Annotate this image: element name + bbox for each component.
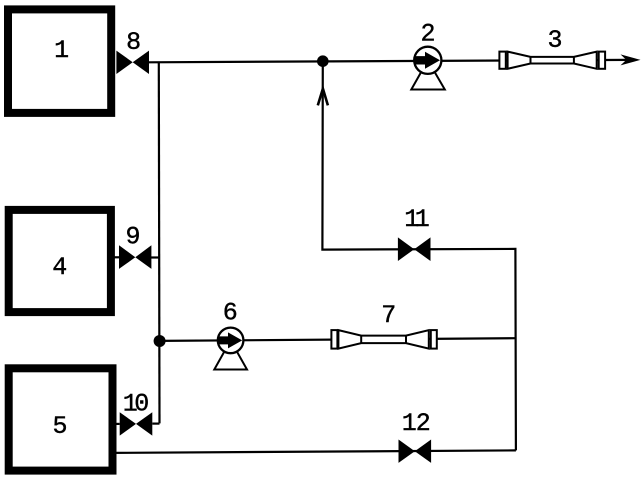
svg-text:3: 3 (547, 26, 562, 55)
svg-text:1: 1 (54, 36, 69, 65)
svg-text:1: 1 (402, 409, 417, 438)
svg-text:8: 8 (126, 28, 141, 57)
svg-text:2: 2 (416, 409, 431, 438)
svg-text:6: 6 (223, 298, 238, 327)
svg-text:1: 1 (415, 205, 430, 234)
svg-text:5: 5 (52, 412, 67, 441)
svg-text:2: 2 (420, 20, 435, 49)
svg-text:9: 9 (125, 223, 140, 252)
svg-text:0: 0 (134, 390, 149, 419)
svg-text:7: 7 (381, 301, 396, 330)
svg-text:4: 4 (52, 253, 67, 282)
